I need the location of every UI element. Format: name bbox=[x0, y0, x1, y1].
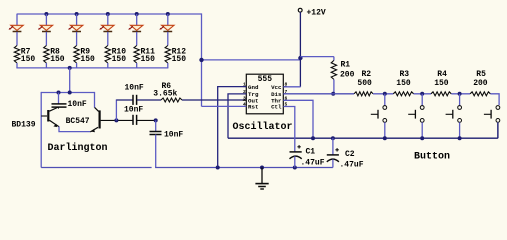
wire R3-R4 bbox=[414, 93, 431, 95]
svg-text:R1: R1 bbox=[341, 60, 351, 69]
svg-text:R2: R2 bbox=[362, 70, 372, 79]
node gnd/symbol bbox=[260, 166, 264, 170]
wire LED2 anode bbox=[45, 14, 47, 26]
transistor Q2 BC547 bbox=[90, 127, 98, 132]
capacitor C6 10nF bbox=[150, 131, 162, 133]
wire C6 to ground rail bbox=[155, 135, 157, 168]
LED D2 bbox=[40, 25, 52, 30]
node tap2 bbox=[420, 92, 424, 96]
wire switch S1 bottom bbox=[384, 122, 386, 138]
svg-text:C1: C1 bbox=[306, 147, 316, 156]
pin 1 Gnd bbox=[243, 86, 247, 88]
wire base feed left column bbox=[40, 92, 42, 168]
wire S4 corner bbox=[497, 123, 499, 138]
resistor R1 200 bbox=[331, 60, 336, 79]
svg-text:10nF: 10nF bbox=[124, 105, 143, 114]
wire pin6 Thr loop bbox=[283, 100, 313, 138]
node S2/timing rail bbox=[420, 136, 424, 140]
wire base node up bbox=[115, 99, 117, 120]
node base node bbox=[114, 118, 118, 122]
node tap3 bbox=[458, 92, 462, 96]
svg-text:555: 555 bbox=[258, 75, 273, 84]
svg-text:500: 500 bbox=[357, 79, 372, 88]
wire LED3 anode bbox=[76, 14, 78, 26]
resistor R9 150 bbox=[74, 46, 79, 64]
wire switch S4 bottom bbox=[497, 122, 499, 138]
pin 4 Rst bbox=[243, 106, 247, 108]
resistor R8 150 bbox=[44, 46, 49, 64]
wire right drop of top rail to +12V node bbox=[201, 13, 203, 106]
wire Q1 emitter to Q2 emitter bbox=[59, 127, 90, 132]
wire top LED supply rail bbox=[17, 13, 202, 15]
resistor R7 150 bbox=[14, 46, 19, 64]
svg-text:R5: R5 bbox=[476, 70, 486, 79]
wire R1 top bbox=[333, 57, 335, 61]
switch S4 bbox=[496, 106, 500, 110]
wire pin4 Rst feed bbox=[202, 105, 247, 107]
pin 8 Vcc bbox=[283, 86, 287, 88]
wire C5 to C6 node bbox=[137, 119, 156, 121]
node gnd/pin1 bbox=[216, 166, 220, 170]
node top rail junction 4 bbox=[106, 12, 110, 16]
svg-text:Gnd: Gnd bbox=[248, 84, 259, 91]
wire BD139 base bbox=[41, 115, 47, 117]
svg-text:Vcc: Vcc bbox=[271, 84, 282, 91]
wire darlington collector rail bbox=[41, 92, 94, 94]
wire 555 out net bbox=[116, 99, 132, 101]
wire R2-R3 bbox=[373, 93, 393, 95]
svg-text:R4: R4 bbox=[437, 70, 447, 79]
wire R4-R5 bbox=[451, 93, 470, 95]
node Thr/timing rail bbox=[311, 136, 315, 140]
svg-text:200: 200 bbox=[473, 79, 488, 88]
svg-text:Darlington: Darlington bbox=[48, 142, 108, 154]
svg-text:C2: C2 bbox=[345, 150, 355, 159]
svg-text:200: 200 bbox=[340, 70, 355, 79]
wire LED1 cathode bbox=[16, 32, 18, 46]
pin 5 Ctl bbox=[283, 106, 287, 108]
node top rail junction 2 bbox=[44, 12, 48, 16]
svg-text:R3: R3 bbox=[400, 70, 410, 79]
wire ground rail left bbox=[41, 167, 151, 169]
svg-text:10nF: 10nF bbox=[68, 100, 87, 109]
terminal +12V bbox=[298, 8, 302, 12]
wire LED6 anode bbox=[167, 14, 169, 26]
ground symbol bbox=[261, 168, 263, 184]
pin 2 Trg bbox=[243, 93, 247, 95]
node collector rail / C3 bbox=[57, 91, 61, 95]
wire tap1 to switch bbox=[384, 94, 386, 106]
capacitor C1 .47uF bbox=[290, 151, 302, 153]
wire pin2 Trg loop bbox=[228, 94, 246, 138]
IC U1 555 body bbox=[246, 74, 283, 114]
wire ground rail right bbox=[155, 167, 333, 169]
LED D5 bbox=[131, 25, 143, 30]
wire LED2 cathode bbox=[45, 32, 47, 46]
wire +12V rail left segment bbox=[202, 59, 301, 61]
node collector rail / tap bbox=[68, 91, 72, 95]
wire pin5 Ctl to C1 bbox=[283, 107, 295, 152]
svg-text:150: 150 bbox=[172, 55, 187, 64]
svg-text:10nF: 10nF bbox=[164, 130, 183, 139]
svg-text:150: 150 bbox=[112, 55, 127, 64]
wire C4 to R6 bbox=[137, 99, 161, 101]
LED D3 bbox=[70, 25, 82, 30]
wire switch S2 bottom bbox=[421, 122, 423, 138]
node cathode bus tap bbox=[68, 66, 72, 70]
wire +12V rail right segment bbox=[300, 56, 334, 58]
node +12V junction bbox=[298, 56, 302, 60]
resistor R11 150 bbox=[134, 46, 139, 64]
svg-text:150: 150 bbox=[141, 55, 156, 64]
node S3/timing rail bbox=[458, 136, 462, 140]
svg-text:Rst: Rst bbox=[248, 104, 258, 111]
wire pin8 Vcc bbox=[283, 86, 300, 88]
resistor R12 150 bbox=[165, 46, 170, 64]
node top rail junction 3 bbox=[75, 12, 79, 16]
wire down to C6 bbox=[155, 120, 157, 131]
svg-text:150: 150 bbox=[50, 55, 65, 64]
wire +12V drop bbox=[299, 12, 301, 87]
svg-text:3.65k: 3.65k bbox=[153, 89, 177, 98]
wire Q2 collector up bbox=[94, 92, 96, 108]
capacitor C4 10nF bbox=[132, 95, 134, 105]
node top rail junction 5 bbox=[135, 12, 139, 16]
svg-text:Button: Button bbox=[414, 151, 450, 162]
wire R1 bottom bbox=[333, 79, 335, 93]
capacitor C3 10nF bbox=[58, 93, 60, 104]
resistor R5 200 bbox=[470, 92, 490, 96]
wire LED4 anode bbox=[107, 14, 109, 26]
wire tap2 to switch bbox=[421, 94, 423, 106]
wire LED6 cathode bbox=[167, 32, 169, 46]
svg-text:150: 150 bbox=[21, 55, 36, 64]
svg-text:3: 3 bbox=[243, 95, 246, 101]
pin 6 Thr bbox=[283, 99, 287, 101]
node top rail junction 6 bbox=[166, 12, 170, 16]
wire R6 to 555 pin3 bbox=[182, 99, 246, 101]
wire switch S3 bottom bbox=[459, 122, 461, 138]
wire LED1 anode bbox=[16, 14, 18, 26]
resistor R4 150 bbox=[431, 92, 451, 96]
switch S2 bbox=[420, 106, 424, 110]
wire LED5 cathode bbox=[136, 32, 138, 46]
wire LED5 anode bbox=[136, 14, 138, 26]
wire pin7 Dis to chain bbox=[283, 93, 354, 95]
svg-text:+12V: +12V bbox=[307, 8, 326, 17]
svg-text:10nF: 10nF bbox=[125, 83, 144, 92]
node top rail drop bbox=[199, 58, 203, 62]
svg-text:150: 150 bbox=[396, 79, 411, 88]
node R1/R2/Dis bbox=[331, 92, 335, 96]
wire LED cathode bus bbox=[16, 67, 168, 69]
node tap1 bbox=[383, 92, 387, 96]
wire LED3 cathode bbox=[76, 32, 78, 46]
wire LED4 cathode bbox=[107, 32, 109, 46]
svg-text:BD139: BD139 bbox=[12, 121, 36, 130]
svg-text:Oscillator: Oscillator bbox=[233, 121, 293, 133]
transistor Q1 BD139 bbox=[47, 110, 49, 122]
node C6 tee bbox=[154, 118, 158, 122]
wire timing rail bbox=[228, 137, 498, 139]
resistor R3 150 bbox=[393, 92, 413, 96]
switch S1 bbox=[383, 106, 387, 110]
wire pin1 Gnd loop bbox=[218, 87, 247, 168]
node gnd/C1 bbox=[293, 166, 297, 170]
LED D6 bbox=[162, 25, 174, 30]
pin 7 Dis bbox=[283, 93, 287, 95]
svg-text:Ctl: Ctl bbox=[271, 104, 282, 111]
wire R5 end drop bbox=[490, 94, 499, 105]
wire tap3 to switch bbox=[459, 94, 461, 106]
resistor R2 500 bbox=[354, 92, 373, 96]
svg-text:.47uF: .47uF bbox=[340, 160, 364, 169]
switch S3 bbox=[458, 106, 462, 110]
LED D1 bbox=[11, 25, 23, 30]
resistor R6 3.65k bbox=[161, 98, 182, 102]
capacitor C5 10nF bbox=[132, 115, 134, 125]
wire tap down to darlington bbox=[69, 68, 71, 93]
LED D4 bbox=[102, 25, 114, 30]
capacitor C2 .47uF bbox=[332, 138, 334, 155]
svg-text:150: 150 bbox=[80, 55, 95, 64]
wire Q2 base bbox=[101, 119, 133, 121]
node S1/timing rail bbox=[383, 136, 387, 140]
resistor R10 150 bbox=[105, 46, 110, 64]
pin 3 Out bbox=[243, 99, 247, 101]
node C2/timing rail bbox=[331, 136, 335, 140]
svg-text:.47uF: .47uF bbox=[301, 158, 325, 167]
svg-text:150: 150 bbox=[434, 79, 449, 88]
svg-text:BC547: BC547 bbox=[66, 117, 90, 126]
